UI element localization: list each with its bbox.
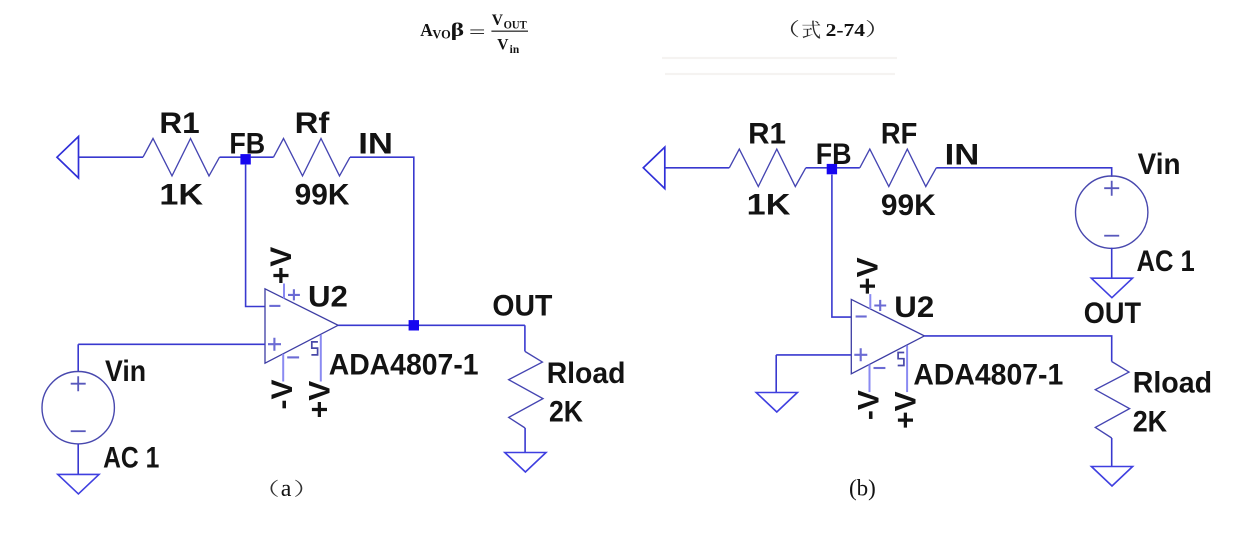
CJK char shi	[802, 21, 820, 39]
svg-text:Vin: Vin	[1138, 148, 1181, 181]
svg-text:β: β	[451, 20, 465, 41]
voltage source Vin (a)	[42, 372, 114, 444]
wire FB to RF (b)	[837, 167, 860, 169]
svg-text:R1: R1	[159, 107, 199, 140]
svg-text:R1: R1	[748, 118, 786, 151]
svg-text:99K: 99K	[295, 179, 350, 212]
svg-text:A: A	[420, 20, 433, 40]
wire arrow to R1 (b)	[665, 167, 730, 169]
wire arrow to R1 (a)	[79, 156, 144, 158]
fraction bar	[491, 30, 528, 32]
svg-text:AC 1: AC 1	[1137, 245, 1195, 278]
ground below Vin (b)	[1091, 278, 1132, 298]
wire FB down to inverting input (b)	[832, 175, 851, 318]
ground below Vin (a)	[58, 474, 99, 494]
node OUT junction (a)	[409, 320, 419, 330]
node FB junction (a)	[240, 154, 250, 164]
output wire (b)	[924, 336, 1111, 362]
svg-text:a: a	[281, 476, 292, 502]
op-amp U2 (a)	[265, 284, 338, 382]
op-amp U2 (b)	[851, 294, 924, 392]
svg-text:U2: U2	[894, 291, 934, 324]
svg-text:1K: 1K	[747, 189, 791, 222]
svg-text:OUT: OUT	[504, 20, 528, 32]
svg-text:ADA4807-1: ADA4807-1	[913, 359, 1063, 392]
wire Vin to ground (b)	[1111, 248, 1113, 279]
svg-text:Vin: Vin	[105, 355, 146, 388]
resistor Rf (a)	[274, 139, 351, 176]
svg-text:+V: +V	[851, 257, 884, 295]
svg-text:2K: 2K	[1133, 406, 1168, 439]
wire Vin to ground (a)	[77, 444, 79, 474]
svg-text:Rload: Rload	[1133, 367, 1212, 400]
svg-text:Rload: Rload	[547, 357, 626, 390]
wire down to ground (b)	[775, 355, 777, 393]
svg-text:(b): (b)	[849, 476, 876, 501]
svg-text:=: =	[469, 22, 486, 41]
wire FB down to inverting input (a)	[246, 164, 265, 307]
wire RF to IN to Vin source (b)	[936, 168, 1111, 177]
svg-text:AC 1: AC 1	[103, 442, 159, 475]
ground below Rload (a)	[505, 453, 546, 473]
wire OUT to Rload (a)	[524, 325, 526, 351]
wire FB to Rf (a)	[251, 156, 274, 158]
ground at non-inverting input (b)	[756, 393, 797, 413]
svg-text:+V: +V	[265, 247, 298, 285]
wire ground to non-inverting input (b)	[776, 354, 851, 356]
svg-text:IN: IN	[358, 128, 393, 161]
svg-text:+V: +V	[303, 381, 336, 419]
svg-text:ADA4807-1: ADA4807-1	[329, 349, 479, 382]
svg-text:Rf: Rf	[295, 107, 331, 140]
svg-text:RF: RF	[881, 118, 917, 151]
svg-text:IN: IN	[945, 138, 980, 171]
svg-text:99K: 99K	[881, 189, 936, 222]
wire Rload to ground (a)	[524, 428, 526, 453]
port arrow left (b)	[643, 147, 665, 189]
fullwidth open paren	[791, 20, 798, 37]
resistor RF (b)	[860, 149, 937, 186]
resistor R1 (b)	[729, 149, 806, 186]
resistor R1 (a)	[143, 139, 220, 176]
svg-text:OUT: OUT	[492, 289, 552, 322]
wire Vin to non-inverting input (a)	[78, 343, 265, 345]
wire R1 to FB (a)	[220, 156, 241, 158]
fullwidth close paren	[867, 20, 874, 37]
svg-text:VO: VO	[432, 28, 450, 42]
svg-text:FB: FB	[229, 128, 265, 161]
svg-text:-V: -V	[853, 390, 886, 420]
resistor Rload (a)	[509, 352, 543, 429]
svg-text:U2: U2	[308, 280, 348, 313]
port arrow left (a)	[57, 137, 79, 179]
output wire (a)	[338, 324, 525, 326]
wire R1 to FB (b)	[806, 167, 827, 169]
wire Rload to ground (b)	[1111, 438, 1113, 467]
svg-text:FB: FB	[816, 138, 852, 171]
svg-text:V: V	[492, 12, 504, 29]
caption (a)	[270, 480, 277, 497]
node FB junction (b)	[827, 164, 837, 174]
svg-text:-V: -V	[266, 380, 299, 410]
svg-text:OUT: OUT	[1084, 297, 1141, 330]
resistor Rload (b)	[1095, 362, 1129, 439]
voltage source Vin (b)	[1076, 176, 1148, 248]
ground below Rload (b)	[1091, 467, 1132, 487]
svg-text:2K: 2K	[549, 396, 583, 429]
svg-text:1K: 1K	[159, 179, 203, 212]
wire down to Vin source (a)	[77, 344, 79, 371]
svg-text:V: V	[497, 37, 509, 54]
faint artifact lines	[662, 58, 897, 74]
wire Rf to IN corner down to output node (a)	[350, 157, 414, 325]
svg-text:2-74: 2-74	[826, 20, 866, 40]
svg-text:in: in	[510, 44, 520, 56]
svg-text:+V: +V	[890, 391, 923, 429]
